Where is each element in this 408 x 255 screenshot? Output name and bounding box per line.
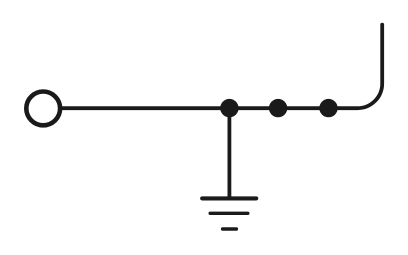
ground: top bar xyxy=(202,196,256,200)
ground: middle bar xyxy=(210,212,248,215)
wire: vertical drop from node 1 to ground xyxy=(227,108,231,197)
ground: bottom bar xyxy=(223,227,237,230)
junction node dot 1 xyxy=(220,99,238,117)
terminal circle (open contact) xyxy=(26,92,60,126)
junction node dot 2 xyxy=(269,99,287,117)
junction node dot 3 xyxy=(319,99,337,117)
wire: horizontal bus from terminal, curving up to top-right lead xyxy=(60,25,382,109)
